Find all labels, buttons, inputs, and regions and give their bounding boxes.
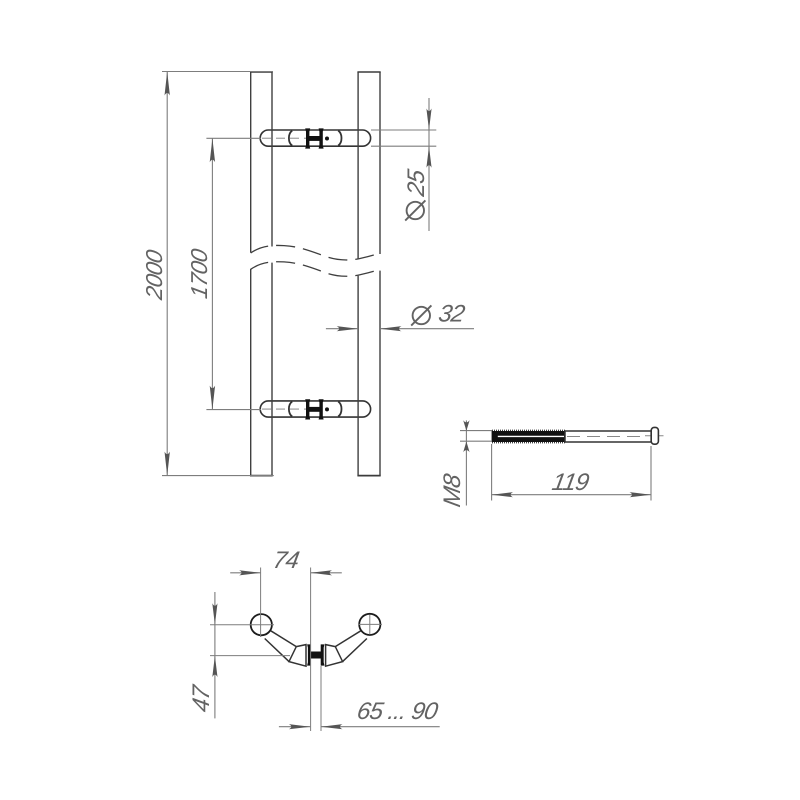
bolt thread crest ticks top [492,429,565,431]
dim M8 arrow up (below) [463,442,469,453]
bottom view: right arm upper line [335,631,361,647]
mount M1 clamp center bolt bar (black) [309,136,320,141]
bottom view: clamp center bolt bar (black) [311,652,322,659]
dim 2000 arrow down [165,452,170,476]
tube rail left, left edge lower segment [250,269,252,476]
mount M1 right section arc [338,131,341,146]
dim dia25 arrow down (above) [426,109,431,131]
tube rail right, left edge upper segment [357,72,359,259]
dim 65-90 arrow right [289,724,311,729]
svg-text:65 ... 90: 65 ... 90 [355,698,441,725]
break line upper (wavy, dashed) [251,245,381,260]
dim dia25 extension line upper [371,129,436,131]
mount M1 left section arc [289,131,292,146]
dim 119 arrow right [630,492,652,497]
dim dia25 text [403,167,430,221]
dim dia32 dimension line right part [380,328,474,330]
tube rail left, right edge lower segment [271,263,273,476]
dim 1700 arrow up [210,138,215,162]
tube rail right bottom edge [357,475,380,477]
dim 2000 arrow up [165,72,170,96]
bottom view: glass plane extension line right [320,666,322,731]
dim 2000 extension line top [162,71,273,73]
dim 47 dimension line [214,592,216,718]
dim 65-90 dimension line right part [321,726,440,728]
dim 1700 extension line top [206,137,261,139]
mount M1 clamp left flange (black) [305,128,310,148]
mount M2 clamp center bolt bar (black) [309,407,320,412]
bolt threaded rod (black) [492,431,565,442]
tube rail right, right edge lower segment [379,271,381,476]
mount M1 bolt tip dot [325,137,329,141]
mount M2 left section arc [289,402,292,417]
dim 74 arrow left [311,570,333,575]
tube rail left bottom edge [250,475,273,477]
bolt thread axis white line [498,435,564,437]
mount M2 clamp left flange (black) [305,399,310,419]
tube rail right, right edge upper segment [379,72,381,254]
dim 47 arrow down (above) [212,603,217,625]
dim 47 extension line upper [210,624,274,626]
dim 47 arrow up (below) [212,656,217,678]
dim M8 extension line upper [460,430,492,432]
dim 119 extension line right [650,446,652,501]
dim 119 extension line left [491,444,493,501]
svg-text:2000: 2000 [141,248,167,303]
dim dia25 arrow up (below) [426,146,431,168]
dim 2000 dimension line [166,72,168,476]
mount spacer M2 (bottom) capsule body [260,401,370,417]
mount M2 axis dashes [262,408,306,410]
bottom view: right tube circle [359,614,380,635]
dim dia25 extension line lower [371,145,436,147]
break line lower (wavy, dashed) [251,262,381,277]
bottom view: glass plane extension line left [310,568,312,732]
bottom view: clamp left flange (black) [307,644,311,665]
dim M8 extension line lower [460,440,492,442]
tube rail left, right edge upper segment [271,72,273,247]
tube rail left top edge [250,71,273,73]
dim 1700 arrow down [210,386,215,410]
bottom view: left cone adapter [289,645,306,667]
dim 1700 extension line bottom [206,409,261,411]
bolt head [651,427,658,444]
dim M8 arrow down (above) [463,420,469,431]
dim dia32 arrow right [337,326,359,331]
dim 65-90 dimension line left part [279,726,310,728]
mount M2 clamp right flange (black) [319,399,324,419]
dim 119 arrow left [492,492,513,497]
dim 119 dimension line [492,494,651,496]
mount M1 axis dashes [262,137,306,139]
svg-text:74: 74 [271,547,301,574]
tube rail right, left edge lower segment [357,276,359,476]
bottom view: left circle vertical centerline / 74 extension [260,568,262,638]
svg-text:119: 119 [550,469,591,496]
bottom view: clamp right flange (black) [321,644,325,665]
bottom view: right cone adapter [326,645,343,667]
bottom view: right circle vertical centerline [369,615,371,635]
bolt thread crest ticks bottom [492,442,565,444]
bottom view: left arm lower line [265,639,289,662]
bottom view: right circle horizontal centerline [358,623,382,625]
dim dia32 text [411,301,467,328]
mount M2 right section arc [338,402,341,417]
dim 74 dimension line left part [230,572,260,574]
bolt axis overshoot past head [645,435,664,437]
bolt shank outline [565,431,651,442]
dim 65-90 arrow left [321,724,343,729]
mount spacer M1 (top) capsule body [260,130,370,146]
mount M2 bolt tip dot [325,407,329,411]
tube rail left, left edge upper segment [250,72,252,253]
dim M8 dimension line [465,420,467,505]
bottom view: left arm upper line [271,631,297,647]
dim dia25 dimension line [428,98,430,231]
dim 47 extension line lower [210,655,290,657]
dim dia32 dimension line left part [326,328,358,330]
dim 74 dimension line right part [311,572,342,574]
bottom view: right arm lower line [343,639,367,662]
bottom view: left tube circle [251,614,272,635]
dim 2000 extension line bottom [162,475,274,477]
dim 1700 dimension line [211,138,213,409]
bolt axis dashed line [567,436,645,438]
svg-text:M8: M8 [439,471,466,509]
tube rail right top edge [357,71,380,73]
mount M1 clamp right flange (black) [319,128,324,148]
dim 74 arrow right [239,570,261,575]
dim dia32 arrow left [380,326,402,331]
svg-text:1700: 1700 [186,247,212,301]
